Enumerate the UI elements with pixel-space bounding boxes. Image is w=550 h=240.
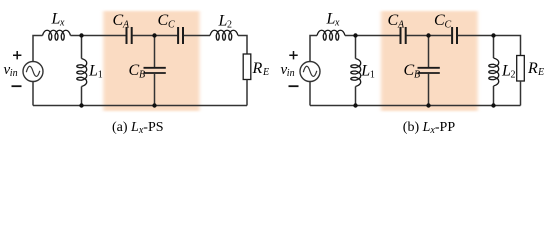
junction node bottom of CB (b) — [426, 103, 430, 107]
wire L1 bottom to ground rail (a) — [81, 87, 83, 106]
source circle (a) — [23, 62, 43, 82]
resistor RE (b) — [517, 56, 525, 82]
svg-text:E: E — [262, 67, 269, 78]
minus sign (b) — [289, 85, 299, 87]
inductor Lx (a) — [43, 30, 71, 40]
inductor L2 (b) — [489, 58, 499, 86]
svg-text:C: C — [158, 12, 169, 29]
junction node top of L1 (a) — [79, 33, 83, 37]
wire CC to L2 (a) — [184, 35, 210, 37]
wire node to L1 top (a) — [81, 36, 83, 59]
svg-text:C: C — [445, 20, 452, 31]
svg-text:2: 2 — [511, 70, 516, 81]
wire top-left loop (b) — [310, 36, 317, 62]
svg-text:C: C — [168, 20, 175, 31]
svg-text:B: B — [414, 70, 420, 81]
capacitor CC (a) — [178, 27, 183, 44]
bottom wire (a) — [33, 105, 247, 107]
wire CB bottom to ground rail (b) — [428, 74, 430, 106]
highlight region (a) — [103, 11, 199, 111]
junction node bottom of L1 (a) — [79, 103, 83, 107]
svg-text:L: L — [51, 11, 61, 28]
svg-text:L: L — [326, 11, 336, 28]
svg-text:L: L — [501, 63, 511, 80]
inductor L1 (b) — [351, 59, 361, 87]
junction node top of L1 (b) — [353, 33, 357, 37]
highlight region (b) — [381, 11, 478, 111]
capacitor CC (b) — [452, 27, 457, 44]
sine wave (b) — [303, 66, 317, 76]
svg-text:L: L — [360, 63, 370, 80]
svg-text:C: C — [129, 62, 140, 79]
svg-text:C: C — [113, 12, 124, 29]
bottom wire (b) — [310, 105, 521, 107]
plus sign (a) — [13, 51, 21, 59]
svg-text:C: C — [404, 62, 415, 79]
junction node bottom of L1 (b) — [353, 103, 357, 107]
wire source bottom (a) — [32, 82, 34, 106]
svg-text:in: in — [287, 68, 295, 79]
svg-text:C: C — [388, 12, 399, 29]
junction node between CA and CC (a) — [152, 33, 156, 37]
svg-text:1: 1 — [370, 70, 375, 81]
svg-text:B: B — [139, 70, 145, 81]
svg-text:C: C — [434, 12, 445, 29]
svg-text:x: x — [59, 18, 65, 29]
wire CB bottom to ground rail (a) — [154, 74, 156, 106]
svg-text:A: A — [397, 20, 405, 31]
wire RE to bottom (a) — [246, 80, 248, 106]
svg-text:(b) Lx-PP: (b) Lx-PP — [403, 120, 456, 136]
svg-text:in: in — [10, 68, 18, 79]
svg-text:R: R — [527, 60, 538, 77]
capacitor CA (b) — [401, 27, 406, 44]
svg-text:L: L — [88, 63, 98, 80]
junction node bottom of CB (a) — [152, 103, 156, 107]
wire CA to CC (b) — [407, 35, 452, 37]
sine wave (a) — [26, 66, 40, 76]
svg-text:2: 2 — [227, 20, 232, 31]
svg-text:L: L — [218, 13, 228, 30]
capacitor CB (b) — [418, 68, 440, 73]
inductor L1 (a) — [77, 59, 87, 87]
wire node to CB top (a) — [154, 36, 156, 68]
wire L2 bottom to ground rail (b) — [493, 86, 495, 106]
capacitor CA (a) — [127, 27, 132, 44]
minus sign (a) — [12, 85, 22, 87]
inductor Lx (b) — [317, 30, 345, 40]
svg-text:x: x — [334, 18, 340, 29]
wire L2 to RE corner (a) — [238, 36, 247, 55]
svg-text:A: A — [122, 20, 130, 31]
wire top-left loop (a) — [33, 36, 43, 62]
wire Lx to CA (a) — [71, 35, 126, 37]
wire RE to bottom (b) — [520, 81, 522, 106]
junction node top of L2 (b) — [491, 33, 495, 37]
resistor RE (a) — [243, 54, 251, 80]
wire node to L2 top (b) — [493, 36, 495, 59]
wire node to CB top (b) — [428, 36, 430, 68]
svg-text:R: R — [252, 60, 263, 77]
svg-text:1: 1 — [98, 70, 103, 81]
svg-text:E: E — [537, 67, 544, 78]
junction node between CA and CC (b) — [426, 33, 430, 37]
inductor L2 (a) — [210, 30, 238, 40]
wire CA to CC (a) — [133, 35, 178, 37]
wire L1 bottom to ground rail (b) — [355, 87, 357, 106]
wire node to L1 top (b) — [355, 36, 357, 59]
svg-text:(a) Lx-PS: (a) Lx-PS — [112, 120, 164, 136]
capacitor CB (a) — [144, 68, 166, 73]
source circle (b) — [300, 62, 320, 82]
wire Lx to CA (b) — [345, 35, 400, 37]
junction node bottom of L2 (b) — [491, 103, 495, 107]
wire CC to RE corner (b) — [458, 36, 521, 56]
plus sign (b) — [289, 51, 297, 59]
wire source bottom (b) — [309, 82, 311, 106]
